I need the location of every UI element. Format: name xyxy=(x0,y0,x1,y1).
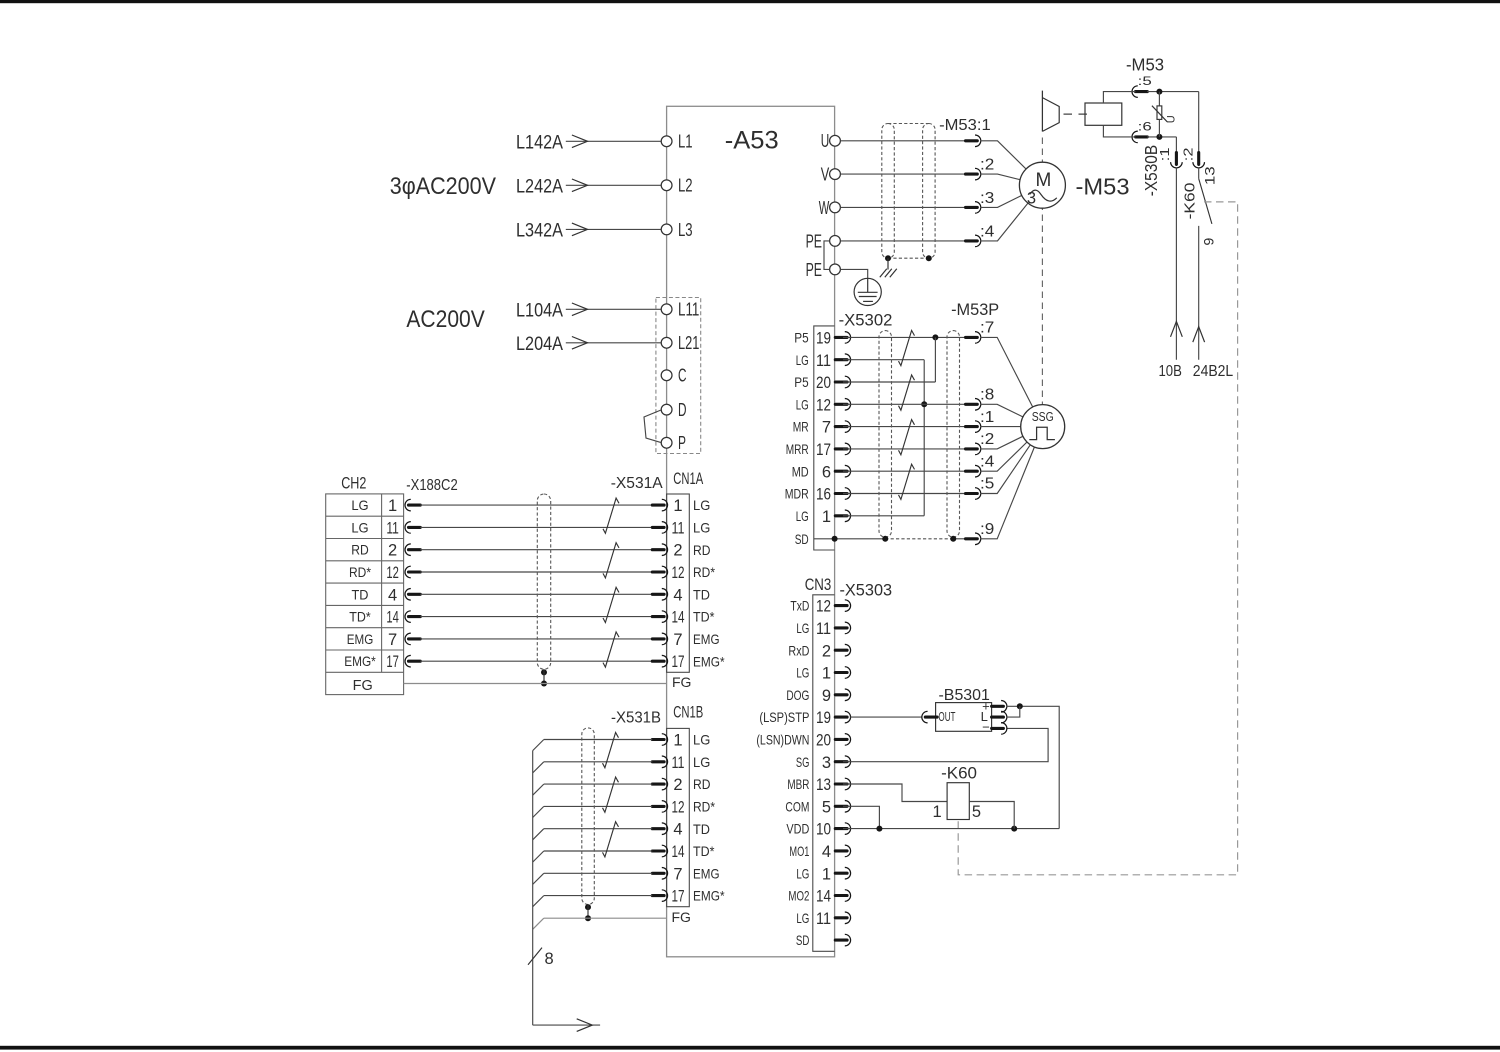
terminal PE2 xyxy=(806,260,841,280)
wire MRR to :2 xyxy=(843,448,966,450)
svg-text:SSG: SSG xyxy=(1032,409,1054,424)
svg-text:2: 2 xyxy=(673,542,682,560)
svg-text:12: 12 xyxy=(816,598,831,616)
CN1A pin text 2 RD xyxy=(673,542,710,560)
connector pin X188C2 12 xyxy=(405,566,420,578)
svg-text::8: :8 xyxy=(980,387,994,404)
wire L204A xyxy=(516,333,661,355)
svg-text:TD: TD xyxy=(693,586,710,602)
wire PE1 to motor pin 4 xyxy=(840,240,965,242)
connector pin M53P:1 xyxy=(966,409,1043,433)
connector pin CN1B 2 xyxy=(652,778,667,790)
svg-text:RD: RD xyxy=(693,542,711,558)
CN3 pin (LSN)DWN 20 xyxy=(756,732,850,750)
CH2 FG cell xyxy=(353,678,373,694)
connector CN3 box xyxy=(813,595,835,952)
motor unit dashed boundary xyxy=(1041,138,1043,406)
svg-text:L342A: L342A xyxy=(516,219,563,241)
svg-text:EMG*: EMG* xyxy=(344,653,376,669)
svg-text:7: 7 xyxy=(673,631,682,649)
svg-text::4: :4 xyxy=(980,453,994,470)
brake coil box xyxy=(1085,103,1122,125)
CN1B pin text 7 EMG xyxy=(673,865,719,883)
wire CN1B TD* 14 xyxy=(533,851,653,862)
svg-text:20: 20 xyxy=(816,374,831,392)
connector pin X188C2 1 xyxy=(405,499,420,511)
svg-text:LG: LG xyxy=(796,665,809,681)
label :3 xyxy=(980,190,994,207)
chassis ground symbol xyxy=(880,269,897,277)
svg-text:TD*: TD* xyxy=(693,843,715,859)
label 13 xyxy=(1202,166,1218,185)
svg-text:LG: LG xyxy=(351,519,368,535)
wire L104A xyxy=(516,299,661,321)
svg-text:-X531B: -X531B xyxy=(611,710,661,727)
svg-text:L2: L2 xyxy=(678,176,693,196)
svg-text:CH2: CH2 xyxy=(341,473,366,492)
label -B5301 xyxy=(939,687,991,704)
wire V to motor pin xyxy=(840,173,965,175)
CN1B cable shield xyxy=(582,728,595,921)
svg-text:CN1A: CN1A xyxy=(673,470,703,488)
wire CH2 TD 4 xyxy=(420,593,652,595)
wire CH2 TD* 14 xyxy=(420,616,652,618)
svg-text::9: :9 xyxy=(980,521,994,538)
CH2 row RD 2 xyxy=(351,542,397,560)
svg-text:8: 8 xyxy=(545,950,554,968)
svg-text:4: 4 xyxy=(822,843,831,861)
wire 10B xyxy=(1171,168,1183,360)
servo amplifier A53 box xyxy=(667,106,835,957)
terminal L3 xyxy=(661,220,692,240)
terminal W xyxy=(819,198,841,218)
svg-text:-K60: -K60 xyxy=(941,763,977,782)
connector pin B5301 - xyxy=(992,723,1007,735)
wire CN1B EMG* 17 xyxy=(533,896,653,907)
CN1A cable shield xyxy=(537,494,550,687)
wire LG-12 to :8 xyxy=(843,403,966,405)
svg-text:11: 11 xyxy=(816,910,831,928)
svg-text:11: 11 xyxy=(672,754,685,772)
svg-text:-X531A: -X531A xyxy=(611,475,663,492)
svg-text:-X5302: -X5302 xyxy=(839,312,893,330)
shield junction right xyxy=(926,255,932,261)
svg-text:17: 17 xyxy=(386,653,399,671)
svg-text:24B2L: 24B2L xyxy=(1193,363,1234,380)
twisted pair xyxy=(603,733,619,768)
svg-text:C: C xyxy=(678,366,687,386)
CN1B pin text 4 TD xyxy=(673,821,710,839)
connector pin B5301 OUT xyxy=(922,711,937,723)
svg-text:LG: LG xyxy=(796,910,809,926)
wire CH2 LG 1 xyxy=(420,504,652,506)
CN1A pin text 12 RD* xyxy=(672,564,716,582)
junction brake top xyxy=(1156,89,1162,95)
connector pin M53:1 xyxy=(966,135,981,147)
wire pin :1 to motor xyxy=(981,141,1043,185)
wire CN1B EMG 7 xyxy=(533,873,653,884)
label -X531A xyxy=(611,475,663,492)
SD dashed link xyxy=(885,538,953,540)
svg-text:LG: LG xyxy=(796,620,809,636)
CN3 pin COM 5 xyxy=(785,798,850,816)
wire pin :4 to motor xyxy=(981,185,1043,241)
wire CH2 EMG* 17 xyxy=(420,660,652,662)
connector pin CN1A 17 xyxy=(652,655,667,667)
svg-text:L142A: L142A xyxy=(516,131,563,153)
CN1A pin text 1 LG xyxy=(673,497,710,515)
connector pin CN1B 4 xyxy=(652,823,667,835)
wire B5301 + to VDD xyxy=(1006,703,1059,828)
svg-text:-M53: -M53 xyxy=(1076,173,1130,199)
brake link dashed xyxy=(1064,113,1091,115)
svg-text:11: 11 xyxy=(816,620,831,638)
wire MBR to K60 xyxy=(843,784,947,802)
svg-text::5: :5 xyxy=(1138,74,1153,88)
svg-text:1: 1 xyxy=(822,508,831,526)
wire SD to :9 xyxy=(953,538,965,540)
svg-text:10: 10 xyxy=(816,821,831,839)
svg-text:9: 9 xyxy=(1201,238,1217,246)
svg-text:EMG: EMG xyxy=(693,631,720,647)
wire to X530B:2 xyxy=(1198,92,1200,153)
svg-text:L242A: L242A xyxy=(516,175,563,197)
CN3 pin SD xyxy=(796,932,851,948)
svg-text:RD*: RD* xyxy=(693,799,715,815)
svg-text::2: :2 xyxy=(1181,148,1196,162)
svg-text:(LSP)STP: (LSP)STP xyxy=(759,709,809,725)
svg-text:12: 12 xyxy=(672,564,685,582)
svg-text:12: 12 xyxy=(816,396,831,414)
svg-text::7: :7 xyxy=(980,320,994,337)
label -A53 xyxy=(725,126,779,154)
connector pin X188C2 7 xyxy=(405,633,420,645)
CN1A FG text xyxy=(672,674,691,690)
connector pin M53P:2 xyxy=(966,427,1043,455)
CN2 pin P5 20 xyxy=(794,374,850,392)
protective earth symbol xyxy=(854,278,881,305)
label -X530B xyxy=(1141,145,1161,196)
wire CH2 RD 2 xyxy=(420,549,652,551)
CN3 pin MBR 13 xyxy=(787,776,850,794)
motor M53 circle xyxy=(1019,162,1065,208)
svg-text:RD: RD xyxy=(351,542,369,558)
svg-text:OUT: OUT xyxy=(938,710,955,724)
CN1A pin text 17 EMG* xyxy=(672,653,726,671)
wire L342A xyxy=(516,219,661,241)
wire pin :2 to motor xyxy=(981,174,1043,185)
svg-text:-K60: -K60 xyxy=(1182,183,1199,220)
svg-text:2: 2 xyxy=(388,542,397,560)
svg-text:RD*: RD* xyxy=(349,564,371,580)
svg-text:EMG*: EMG* xyxy=(693,888,725,904)
svg-text:-A53: -A53 xyxy=(725,126,779,154)
connector pin X188C2 17 xyxy=(405,655,420,667)
svg-text::2: :2 xyxy=(980,157,994,174)
svg-text:4: 4 xyxy=(388,586,397,604)
label -M53P xyxy=(951,301,999,319)
svg-text:LG: LG xyxy=(796,396,809,412)
bottom border bar xyxy=(0,1046,1500,1050)
label :6 xyxy=(1138,120,1153,134)
svg-text:L1: L1 xyxy=(678,132,693,152)
twisted pair xyxy=(603,632,619,667)
wire MDR to :5 xyxy=(843,493,966,495)
svg-text:EMG: EMG xyxy=(693,865,720,881)
B5301 plus text xyxy=(982,698,990,713)
wire K60 to VDD xyxy=(969,802,1014,829)
motor 3-phase mark xyxy=(1027,190,1057,208)
connector pin M53:5 xyxy=(1132,86,1147,98)
svg-text:14: 14 xyxy=(386,609,399,627)
twisted pair xyxy=(603,543,619,578)
svg-text:12: 12 xyxy=(672,798,685,816)
connector pin X530B:2 xyxy=(1193,153,1205,168)
svg-text::6: :6 xyxy=(1138,120,1153,134)
wire CH2 LG 11 xyxy=(420,526,652,528)
CN2 pin LG 11 xyxy=(796,352,851,370)
terminal L1 xyxy=(661,132,692,152)
svg-text:17: 17 xyxy=(672,653,685,671)
wire MR to :1 xyxy=(843,426,966,428)
svg-text:12: 12 xyxy=(386,564,399,582)
svg-text:PE: PE xyxy=(806,231,822,251)
CN3 pin MO1 4 xyxy=(789,843,850,861)
svg-text:W: W xyxy=(819,198,830,218)
CH2 row EMG 7 xyxy=(347,631,397,649)
CN3 pin SG 3 xyxy=(796,754,851,772)
svg-text:14: 14 xyxy=(672,609,685,627)
svg-text:1: 1 xyxy=(822,865,831,883)
svg-text:1: 1 xyxy=(822,665,831,683)
terminal P xyxy=(661,433,686,453)
terminal C xyxy=(661,366,686,386)
label 9 xyxy=(1201,238,1217,246)
FG wire CN1B xyxy=(533,918,667,929)
svg-text:4: 4 xyxy=(673,821,682,839)
svg-text:13: 13 xyxy=(1202,166,1218,185)
svg-text:2: 2 xyxy=(673,776,682,794)
label -X5302 xyxy=(839,312,893,330)
svg-text:TxD: TxD xyxy=(790,598,809,614)
label CN1B xyxy=(673,704,703,722)
CN1A pin text 7 EMG xyxy=(673,631,719,649)
label -X5303 xyxy=(840,582,893,600)
svg-text:SG: SG xyxy=(796,754,810,770)
svg-text::5: :5 xyxy=(980,476,994,493)
label 24B2L xyxy=(1193,363,1234,380)
svg-text:COM: COM xyxy=(785,798,809,814)
svg-text:EMG*: EMG* xyxy=(693,653,725,669)
svg-text:14: 14 xyxy=(816,888,831,906)
twisted pair xyxy=(899,330,915,365)
svg-text:SD: SD xyxy=(795,531,809,547)
label CH2 xyxy=(341,473,366,492)
label -K60 coil xyxy=(941,763,977,782)
svg-text:LG: LG xyxy=(796,508,809,524)
svg-text:LG: LG xyxy=(693,732,710,748)
svg-text:19: 19 xyxy=(816,330,831,348)
label CN3 xyxy=(805,576,832,594)
svg-text:MDR: MDR xyxy=(785,486,809,502)
svg-text:D: D xyxy=(678,400,687,420)
svg-text:7: 7 xyxy=(673,865,682,883)
svg-text:MO2: MO2 xyxy=(788,888,809,904)
shield top link xyxy=(888,123,929,125)
connector pin CN1B 14 xyxy=(652,845,667,857)
svg-text::4: :4 xyxy=(980,223,994,240)
connector pin X188C2 2 xyxy=(405,544,420,556)
CH2 table xyxy=(326,494,404,695)
terminal PE1 xyxy=(806,231,841,251)
CH2 row LG 11 xyxy=(351,519,399,537)
svg-text:LG: LG xyxy=(693,754,710,770)
CN2 pin LG 1 xyxy=(796,508,851,526)
CN1A pin text 11 LG xyxy=(672,519,711,537)
wire PE2 to earth xyxy=(840,269,867,278)
svg-text:L204A: L204A xyxy=(516,333,563,355)
CN2 pin MD 6 xyxy=(792,463,851,481)
B5301 minus text xyxy=(982,719,990,734)
svg-text:CN3: CN3 xyxy=(805,576,832,594)
connector pin B5301 L xyxy=(992,711,1007,723)
wire coil to pin 6 xyxy=(1103,125,1135,137)
terminal L21 xyxy=(661,333,699,353)
wire U to motor pin xyxy=(840,140,965,142)
CN3 pin LG 1 xyxy=(796,665,850,683)
label :1 rotated xyxy=(1157,148,1172,162)
svg-text:-X530B: -X530B xyxy=(1141,145,1161,196)
wire CN1B RD 2 xyxy=(533,784,653,795)
svg-text:EMG: EMG xyxy=(347,631,374,647)
connector pin M53P:9 xyxy=(966,427,1043,545)
connector pin X188C2 11 xyxy=(405,522,420,534)
CN2 pin P5 19 xyxy=(794,330,850,348)
connector pin X188C2 4 xyxy=(405,589,420,601)
label -X188C2 xyxy=(406,477,457,494)
connector pin M53:4 xyxy=(966,235,981,247)
svg-text:L21: L21 xyxy=(678,333,699,353)
svg-text:MRR: MRR xyxy=(786,441,809,457)
svg-text:MBR: MBR xyxy=(787,776,809,792)
connector pin CN1A 2 xyxy=(652,544,667,556)
encoder SSG circle xyxy=(1021,405,1065,449)
bundle count slash 8 xyxy=(528,948,554,968)
relay coil K60 box xyxy=(947,783,969,820)
terminal U xyxy=(821,131,841,151)
svg-text:14: 14 xyxy=(672,843,685,861)
connector pin M53P:7 xyxy=(966,320,1043,427)
svg-text:P: P xyxy=(678,433,686,453)
CN1B pin text 1 LG xyxy=(673,732,710,750)
svg-text:FG: FG xyxy=(672,674,691,690)
CN3 pin LG 11 xyxy=(796,910,850,928)
connector pin M53P:4 xyxy=(966,427,1043,477)
svg-text:AC200V: AC200V xyxy=(406,306,484,333)
svg-text:1: 1 xyxy=(673,732,682,750)
CH2 row EMG* 17 xyxy=(344,653,399,671)
B5301 OUT text xyxy=(938,710,955,724)
connector pin X530B:1 xyxy=(1171,153,1183,168)
CN1B pin text 2 RD xyxy=(673,776,710,794)
wire SD xyxy=(814,536,885,542)
svg-text:2: 2 xyxy=(822,642,831,660)
wire W to motor pin xyxy=(840,206,965,208)
wire pin :3 to motor xyxy=(981,185,1043,207)
CN3 pin MO2 14 xyxy=(788,888,850,906)
svg-text:FG: FG xyxy=(672,909,691,925)
label 3phase AC200V xyxy=(390,173,496,200)
svg-text:LG: LG xyxy=(796,352,809,368)
junction brake bottom xyxy=(1156,134,1162,140)
terminal V xyxy=(821,165,841,185)
connector pin M53:6 xyxy=(1132,131,1147,143)
svg-text:LG: LG xyxy=(351,497,368,513)
svg-text:VDD: VDD xyxy=(786,821,809,837)
svg-text:10B: 10B xyxy=(1159,363,1182,380)
wire coil to pin 5 xyxy=(1103,92,1135,103)
twisted pair xyxy=(899,464,915,499)
shield bottom link xyxy=(888,257,929,259)
connector X5302 box xyxy=(814,326,835,550)
FG wire CH2 to CN1A xyxy=(404,683,667,685)
svg-text:-M53:1: -M53:1 xyxy=(939,117,991,134)
wire B5301 L join xyxy=(1006,706,1019,717)
svg-text:TD*: TD* xyxy=(349,609,371,625)
svg-text:LG: LG xyxy=(693,520,710,536)
svg-text:-M53P: -M53P xyxy=(951,301,999,319)
label 10B xyxy=(1159,363,1182,380)
encoder cable shield left xyxy=(879,331,892,542)
CN1B pin text 14 TD* xyxy=(672,843,715,861)
connector pin B5301 + xyxy=(992,701,1007,713)
svg-text:1: 1 xyxy=(388,497,397,515)
connector pin CN1B 11 xyxy=(652,756,667,768)
CN2 pin SD xyxy=(795,531,809,547)
CN3 pin TxD 12 xyxy=(790,598,850,616)
twisted pair xyxy=(603,587,619,622)
svg-text:3φAC200V: 3φAC200V xyxy=(390,173,496,200)
label -X531B xyxy=(611,710,661,727)
svg-text:5: 5 xyxy=(972,803,981,821)
svg-text:1: 1 xyxy=(673,497,682,515)
svg-text:TD*: TD* xyxy=(693,609,715,625)
wire SG xyxy=(843,728,1048,761)
wire pin6 bus xyxy=(1147,136,1176,138)
label -M53:1 xyxy=(939,117,991,134)
wire 24B2L xyxy=(1193,226,1205,360)
svg-text:11: 11 xyxy=(386,519,399,537)
label :2 xyxy=(980,157,994,174)
wire CN1B RD* 12 xyxy=(533,806,653,817)
svg-text:L3: L3 xyxy=(678,220,693,240)
svg-text:U: U xyxy=(821,131,830,151)
connector pin CN1A 11 xyxy=(652,522,667,534)
svg-text:M: M xyxy=(1035,170,1051,191)
svg-text:RD: RD xyxy=(693,776,711,792)
CN1B FG text xyxy=(672,909,691,925)
svg-text:RD*: RD* xyxy=(693,564,715,580)
svg-text:-X5303: -X5303 xyxy=(840,582,893,600)
twisted pair xyxy=(603,822,619,857)
connector pin CN1A 12 xyxy=(652,566,667,578)
svg-text:RxD: RxD xyxy=(788,642,809,658)
svg-text:LG: LG xyxy=(796,865,809,881)
connector pin CN1B 12 xyxy=(652,801,667,813)
label AC200V xyxy=(406,306,484,333)
svg-text:DOG: DOG xyxy=(786,687,809,703)
svg-text:-M53: -M53 xyxy=(1126,54,1164,74)
